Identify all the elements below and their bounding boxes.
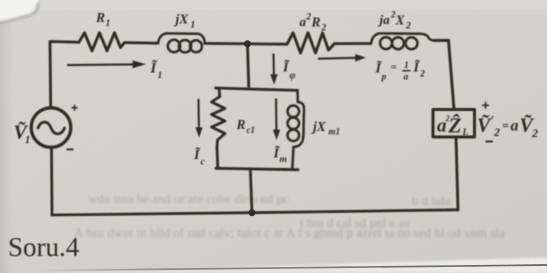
label a2ZL (in load box) (437, 113, 469, 138)
svg-text:1: 1 (404, 61, 409, 71)
svg-text:1: 1 (191, 21, 196, 31)
label ja2X2 (378, 10, 412, 32)
label Rc1 (236, 117, 256, 135)
label I1 (150, 59, 163, 82)
svg-text:Ẑ: Ẑ (448, 114, 462, 138)
wire: a2R2 to ja2X2 (335, 42, 372, 45)
svg-text:=: = (502, 119, 509, 133)
label V'2 = aV2 (477, 113, 538, 141)
polarity - of V'2 (486, 141, 494, 143)
svg-text:=: = (391, 62, 397, 74)
current arrow I1 (67, 60, 146, 68)
svg-text:t hm d cal sd pnl e as: t hm d cal sd pnl e as (300, 215, 409, 230)
svg-text:m1: m1 (329, 127, 341, 137)
node A junction dot (top) (244, 40, 251, 47)
current arrow Ic (195, 99, 202, 138)
svg-text:a: a (300, 14, 307, 29)
svg-text:1: 1 (25, 135, 30, 146)
svg-text:b d hda: b d hda (412, 193, 451, 208)
load box a2ZL (433, 110, 475, 138)
wire: ja2X2 to top-right corner, down to load box (434, 40, 454, 109)
resistor R1 (79, 33, 125, 51)
inductor jXm1 (288, 90, 305, 169)
svg-text:m: m (280, 155, 287, 165)
inductor jX1 (158, 33, 205, 52)
svg-text:p: p (381, 73, 387, 83)
label Im (273, 144, 287, 166)
voltage source V1 (31, 108, 71, 148)
top-left white blob (0, 0, 39, 23)
resistor Rc1 (212, 88, 226, 168)
svg-text:ja: ja (378, 12, 391, 27)
svg-text:jX: jX (174, 12, 190, 27)
svg-text:X: X (395, 13, 406, 28)
wire: source bottom to bottom rail (50, 148, 53, 215)
svg-text:L: L (462, 128, 469, 138)
label jX1 (174, 12, 196, 31)
polarity + of V1 (72, 105, 78, 111)
svg-text:R: R (236, 117, 246, 132)
label a2R2 (300, 12, 327, 34)
wire: shunt mid return to bottom junction (250, 169, 252, 213)
svg-text:2: 2 (405, 22, 411, 32)
label Ip = (1/a) I2 (375, 58, 426, 83)
svg-text:R: R (311, 15, 321, 30)
wire: shunt top rail (216, 88, 298, 90)
label V1 (source) (14, 121, 31, 147)
inductor ja2X2 (371, 33, 434, 49)
label Iphi (282, 58, 296, 82)
current arrow Im (273, 99, 280, 141)
wire: node to shunt top rail (248, 44, 249, 89)
wire: load box bottom to bottom rail (456, 137, 458, 210)
label R1 (95, 10, 110, 29)
svg-text:a: a (511, 118, 519, 135)
current arrow Iphi (270, 54, 277, 85)
svg-text:c1: c1 (247, 125, 256, 135)
wire: R1 to jX1 (125, 41, 159, 44)
current arrow Ip (318, 54, 366, 62)
wire: jX1 to a2R2 through node (205, 42, 287, 46)
bottom page edge white strip (40, 258, 547, 273)
svg-text:2: 2 (321, 24, 327, 34)
svg-text:1: 1 (106, 19, 111, 29)
polarity - of V1 (67, 148, 74, 150)
label Ic (193, 145, 206, 168)
svg-text:2: 2 (531, 126, 538, 140)
svg-text:1: 1 (158, 71, 163, 81)
wire: bottom rail (52, 210, 458, 215)
wire: shunt bottom rail (216, 168, 298, 169)
svg-text:2: 2 (419, 70, 425, 80)
svg-text:a: a (404, 73, 409, 83)
svg-text:R: R (95, 10, 105, 25)
polarity + of V'2 (482, 102, 489, 109)
node B junction dot (bottom) (249, 209, 256, 216)
svg-text:A hsu dwot nt hlld of sud calv: A hsu dwot nt hlld of sud calv; tuiot c … (74, 225, 505, 240)
resistor a2R2 (287, 33, 335, 53)
svg-text:2: 2 (493, 125, 500, 139)
svg-text:Soru.4: Soru.4 (8, 232, 80, 262)
svg-text:jX: jX (311, 119, 327, 134)
wire: top-left corner to R1 (50, 42, 79, 108)
svg-text:φ: φ (290, 71, 296, 82)
label jXm1 (311, 119, 340, 137)
svg-text:wda tnto he and or ate cohe di: wda tnto he and or ate cohe dirts nd pc (88, 191, 289, 206)
